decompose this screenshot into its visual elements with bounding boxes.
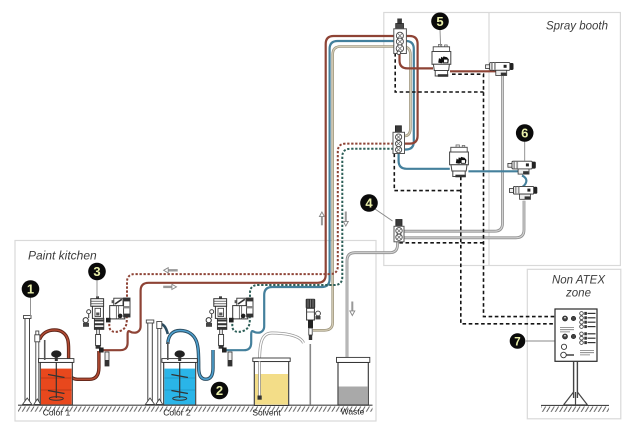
svg-text:3: 3	[93, 264, 100, 279]
svg-text:Color 2: Color 2	[163, 408, 191, 418]
svg-text:Waste: Waste	[341, 407, 365, 417]
svg-text:Non ATEX: Non ATEX	[552, 275, 606, 287]
svg-text:5: 5	[436, 14, 443, 29]
svg-text:6: 6	[521, 126, 528, 141]
svg-text:Solvent: Solvent	[252, 408, 281, 418]
svg-text:Paint kitchen: Paint kitchen	[28, 249, 97, 263]
svg-text:7: 7	[514, 336, 520, 348]
svg-text:4: 4	[365, 196, 373, 211]
svg-text:1: 1	[27, 282, 34, 297]
svg-text:Color 1: Color 1	[43, 408, 71, 418]
svg-text:2: 2	[216, 383, 223, 398]
svg-text:Spray booth: Spray booth	[546, 21, 608, 33]
svg-text:zone: zone	[565, 288, 591, 300]
